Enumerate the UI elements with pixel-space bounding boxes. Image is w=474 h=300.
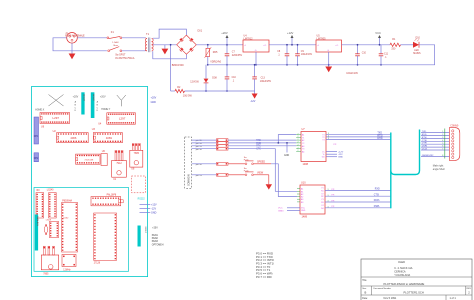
svg-text:LED: LED xyxy=(414,50,419,52)
switch Sw Push VIEW xyxy=(228,168,254,176)
svg-text:pin 13: pin 13 xyxy=(196,175,203,177)
PCB outer cyan box xyxy=(32,87,148,277)
svg-text:R4: R4 xyxy=(321,208,323,210)
LED D10 MAINS xyxy=(401,36,422,54)
svg-text:DTR\: DTR\ xyxy=(377,138,383,140)
svg-text:+20V: +20V xyxy=(151,97,157,100)
svg-text:L297: L297 xyxy=(119,117,126,121)
svg-text:A2: A2 xyxy=(302,139,304,142)
varistor R05 VDR(24V) xyxy=(205,45,222,65)
regulator U5 LM7805 xyxy=(316,35,342,52)
svg-text:+12V: +12V xyxy=(287,31,294,35)
regulator 7805 bottom package xyxy=(41,246,58,275)
IC U10 1489 line receiver xyxy=(300,182,325,219)
power label +20V xyxy=(221,31,228,45)
svg-text:Y3: Y3 xyxy=(321,199,323,201)
pin letters column 1 xyxy=(75,101,77,113)
text block +20V PEN list xyxy=(152,228,164,247)
text block P3 port functions xyxy=(256,252,274,279)
wire SPEED to U10 xyxy=(271,164,297,197)
pin letters column 2 xyxy=(97,101,99,113)
svg-text:P.P.: P.P. xyxy=(334,144,338,146)
svg-text:A0-A3X: A0-A3X xyxy=(83,94,86,102)
svg-text:CONN-DIN: CONN-DIN xyxy=(189,174,191,186)
svg-text:27128: 27128 xyxy=(94,263,101,265)
svg-text:100uF/16V: 100uF/16V xyxy=(301,54,313,56)
svg-text:1488: 1488 xyxy=(303,163,309,166)
IC vertical DIP B xyxy=(49,193,57,218)
svg-text:VIEW: VIEW xyxy=(257,171,264,174)
svg-text:PEN2: PEN2 xyxy=(152,238,159,240)
svg-text:3: 3 xyxy=(328,138,329,140)
X axis mark xyxy=(49,95,64,107)
svg-text:pin 15: pin 15 xyxy=(196,146,203,148)
svg-text:4: 4 xyxy=(442,140,443,142)
svg-text:7912: 7912 xyxy=(116,162,122,165)
svg-text:RTS\: RTS\ xyxy=(422,137,427,139)
wire CTS\ to DB9 xyxy=(421,140,449,142)
svg-text:2: 2 xyxy=(298,147,299,149)
svg-text:B1: B1 xyxy=(301,191,303,193)
svg-text:Y1: Y1 xyxy=(321,188,323,190)
svg-text:+20V: +20V xyxy=(152,228,158,230)
svg-text:7805: 7805 xyxy=(43,273,49,275)
IC LS240 vertical DIP A xyxy=(36,193,44,218)
svg-text:R3: R3 xyxy=(321,202,323,204)
svg-text:2: 2 xyxy=(298,145,299,147)
wire RTS\ to DB9 xyxy=(421,137,449,139)
svg-text:TXD: TXD xyxy=(377,133,382,135)
power label VCC xyxy=(375,31,381,45)
svg-text:2: 2 xyxy=(298,133,299,135)
svg-text:U10: U10 xyxy=(301,182,306,185)
svg-text:TXD: TXD xyxy=(422,131,427,133)
wire bridge left to minus rail xyxy=(170,45,172,91)
svg-text:CTS\: CTS\ xyxy=(374,194,380,196)
empty socket dashed box xyxy=(131,176,145,193)
svg-text:5: 5 xyxy=(442,143,443,145)
svg-text:P.P.: P.P. xyxy=(332,206,336,208)
svg-text:4066: 4066 xyxy=(70,136,76,140)
svg-text:+20V: +20V xyxy=(73,95,79,98)
wire DCD\ to DB9 xyxy=(421,149,449,151)
svg-text:RS232: RS232 xyxy=(138,199,146,201)
wire stub +12V xyxy=(140,204,151,206)
svg-text:P3.7 == RD\: P3.7 == RD\ xyxy=(256,275,272,279)
svg-text:0123 F: 0123 F xyxy=(144,227,146,234)
svg-text:VDR(24V): VDR(24V) xyxy=(210,60,221,63)
svg-text:HOME:X: HOME:X xyxy=(35,109,45,111)
Y axis mark xyxy=(117,95,126,106)
IC U3 4069 xyxy=(93,133,122,143)
svg-text:330: 330 xyxy=(391,47,396,50)
svg-text:LM7805: LM7805 xyxy=(317,37,327,40)
svg-text:GND: GND xyxy=(338,157,343,159)
diode D1 package xyxy=(44,224,47,234)
svg-text:A1: A1 xyxy=(302,134,304,137)
power terminal -12V xyxy=(250,91,257,103)
svg-text:OLED: OLED xyxy=(398,260,405,264)
green pin number column xyxy=(442,129,445,159)
regulator U1 7912 package xyxy=(115,151,117,161)
wire DTR\ to DB9 xyxy=(421,143,449,145)
IC U4b L297 stepper driver Y xyxy=(107,113,136,124)
wire T1 secondary bottom to bridge bottom xyxy=(153,51,187,59)
connector DP1 xyxy=(34,117,39,144)
svg-text:P.P.: P.P. xyxy=(332,189,336,191)
wire din row2 to U7 pin1 xyxy=(228,135,296,143)
wire fuse to T1 xyxy=(122,37,146,39)
svg-text:1489: 1489 xyxy=(302,215,308,218)
svg-text:Y4: Y4 xyxy=(321,205,323,207)
svg-text:3: 3 xyxy=(328,201,329,203)
svg-text:DSR\: DSR\ xyxy=(422,146,428,148)
svg-text:DATA-BUS: DATA-BUS xyxy=(36,216,39,226)
svg-text:2200/35V: 2200/35V xyxy=(232,54,243,57)
wire GND tap xyxy=(284,143,289,157)
cyan net tag 1 xyxy=(81,92,85,114)
svg-text:PLOTTER-RS232 to HARDWARE: PLOTTER-RS232 to HARDWARE xyxy=(384,282,425,286)
svg-text:Y2: Y2 xyxy=(321,193,323,195)
svg-text:A3: A3 xyxy=(301,198,303,201)
fuse F1 xyxy=(107,30,122,47)
svg-text:+20V: +20V xyxy=(100,95,106,98)
svg-text:GND: GND xyxy=(151,212,157,215)
wire din row4 to U10 xyxy=(228,149,297,192)
U7 right pins to bus xyxy=(326,133,391,140)
svg-text:1: 1 xyxy=(442,131,443,133)
wire U4 out to U5 in xyxy=(269,44,316,46)
IC U2 4066 xyxy=(57,133,89,143)
svg-text:Document Number: Document Number xyxy=(374,287,392,290)
wire stub -12V xyxy=(140,208,151,210)
IC small DIP D xyxy=(50,221,59,237)
PCB inner cyan box xyxy=(34,188,129,272)
resistor jumper row 4 xyxy=(192,147,228,150)
resistor jumper row 1 xyxy=(192,139,228,142)
svg-text:C10: C10 xyxy=(232,77,237,79)
svg-text:Sw SPST: Sw SPST xyxy=(115,54,126,57)
svg-text:YUGOSLAVIA: YUGOSLAVIA xyxy=(394,274,410,277)
ground symbol under U5 xyxy=(325,52,332,72)
svg-text:B80C1500: B80C1500 xyxy=(172,64,184,67)
svg-text:A0-A3Y: A0-A3Y xyxy=(92,94,95,102)
resistor jumper row 6 xyxy=(192,173,228,176)
svg-text:2: 2 xyxy=(298,150,299,152)
cyan net tag 2 xyxy=(91,92,95,118)
transformer T1 xyxy=(115,32,153,60)
svg-text:Slow: Slow xyxy=(113,45,118,47)
svg-text:CONN9: CONN9 xyxy=(450,125,459,127)
crystal 12MHz package xyxy=(62,255,76,272)
wire LED return loop xyxy=(208,45,435,65)
svg-text:SPEED: SPEED xyxy=(257,160,265,163)
IC U6 74LS138 xyxy=(76,154,100,164)
svg-text:R1: R1 xyxy=(321,190,323,192)
svg-text:L297: L297 xyxy=(53,116,60,120)
zener D08 12V/1W xyxy=(190,65,217,91)
ground below J1 xyxy=(69,43,76,59)
svg-text:PEN3: PEN3 xyxy=(152,241,159,243)
svg-text:GND\: GND\ xyxy=(278,210,284,212)
svg-text:12MHz: 12MHz xyxy=(63,270,71,272)
svg-text:2: 2 xyxy=(298,142,299,144)
svg-text:-12V: -12V xyxy=(250,100,255,103)
svg-text:8: 8 xyxy=(442,155,443,157)
svg-text:VCC: VCC xyxy=(278,208,283,210)
svg-text:+O: +O xyxy=(335,45,338,47)
svg-text:DTR\: DTR\ xyxy=(422,143,427,145)
wire T1 secondary top to bridge xyxy=(153,29,187,38)
svg-text:pin 14: pin 14 xyxy=(196,143,203,145)
svg-text:OPTOMEH: OPTOMEH xyxy=(152,244,164,246)
svg-text:P.P.: P.P. xyxy=(332,200,336,202)
net label SPEED xyxy=(253,160,271,163)
svg-text:100uF/25V: 100uF/25V xyxy=(260,81,272,83)
connector DIN-CON dashed box xyxy=(185,137,192,188)
svg-text:Y2: Y2 xyxy=(302,143,304,145)
svg-text:GND: GND xyxy=(151,101,157,104)
svg-text:Date:: Date: xyxy=(362,297,368,300)
resistor jumper row 3 xyxy=(192,144,228,147)
capacitor C9 100uF/16V xyxy=(295,45,312,65)
svg-text:74LS138: 74LS138 xyxy=(84,159,94,161)
svg-text:CTS\: CTS\ xyxy=(422,140,427,142)
svg-text:D10: D10 xyxy=(416,36,421,39)
svg-text:LS32: LS32 xyxy=(63,218,69,220)
svg-text:pin 10: pin 10 xyxy=(196,164,203,166)
switch Sw SPST xyxy=(108,47,126,57)
svg-text:DP1: DP1 xyxy=(34,136,39,138)
svg-text:RXD: RXD xyxy=(422,134,427,136)
svg-text:1.5A-F: 1.5A-F xyxy=(112,41,119,44)
capacitor C10 100uF/10V xyxy=(346,45,366,75)
wire J1 right to fuse xyxy=(77,37,107,39)
wire J1 left loop to switch xyxy=(53,38,107,51)
title block xyxy=(361,259,472,300)
wire bridge plus output rail +20V xyxy=(196,44,243,46)
svg-text:100uF/10V: 100uF/10V xyxy=(346,72,358,75)
bridge rectifier D01 B80C1500 xyxy=(172,29,203,67)
svg-text:LM7812: LM7812 xyxy=(244,37,254,40)
svg-text:1 of 1: 1 of 1 xyxy=(450,297,457,300)
wire RXD to DB9 xyxy=(421,134,449,136)
label I30 LS240 xyxy=(36,190,54,193)
svg-text:3: 3 xyxy=(328,189,329,191)
svg-text:Nov 5 1991: Nov 5 1991 xyxy=(384,297,397,300)
svg-text:GND: GND xyxy=(284,155,289,157)
svg-text:VCC: VCC xyxy=(375,31,381,35)
svg-text:+O: +O xyxy=(263,45,266,47)
svg-text:2: 2 xyxy=(298,136,299,138)
svg-text:2: 2 xyxy=(298,139,299,141)
svg-text:pin 16: pin 16 xyxy=(196,149,203,151)
svg-text:PAL16P8: PAL16P8 xyxy=(107,193,117,196)
svg-text:R2: R2 xyxy=(321,196,323,198)
wire DSR\ to DB9 xyxy=(421,146,449,148)
svg-text:GND: GND xyxy=(301,210,306,212)
svg-text:7805: 7805 xyxy=(134,152,140,155)
IC U7 1488 line driver xyxy=(301,128,326,166)
wire U4 ground pin xyxy=(255,52,257,65)
svg-text:C13: C13 xyxy=(261,78,266,80)
svg-text:REV: REV xyxy=(467,288,472,290)
U7 power stubs xyxy=(326,144,344,159)
net label VIEW xyxy=(253,171,268,174)
svg-text:HOME:Y: HOME:Y xyxy=(101,109,111,111)
resistor R2 100/.5W on minus rail xyxy=(171,86,255,98)
cyan net tag left column xyxy=(35,215,39,251)
power label +12V xyxy=(287,31,294,45)
svg-text:7: 7 xyxy=(442,149,443,151)
wire T1 center tap to bridge left xyxy=(153,44,177,46)
resistor jumper row 2 xyxy=(192,142,228,145)
regulator U8 7805 package xyxy=(132,144,134,151)
IC 8039 CPU DIP xyxy=(62,203,78,253)
bus cyan branch to connector xyxy=(391,130,420,175)
text male right angle shell xyxy=(433,165,445,171)
svg-text:15-15V/750-750mA: 15-15V/750-750mA xyxy=(115,57,135,60)
ground under VIEW switch xyxy=(266,175,272,190)
svg-text:Y3: Y3 xyxy=(302,149,304,151)
IC 27128 EPROM DIP xyxy=(94,213,117,265)
U7 left pin numbers xyxy=(296,133,301,152)
svg-text:B3: B3 xyxy=(301,202,303,204)
svg-text:A4: A4 xyxy=(302,150,304,153)
cyan net tag right xyxy=(138,226,141,247)
bus cyan vertical xyxy=(390,133,392,209)
svg-text:PLUG AC FEMALE: PLUG AC FEMALE xyxy=(65,35,85,38)
svg-text:Push: Push xyxy=(244,160,250,162)
svg-text:6: 6 xyxy=(442,146,443,148)
resistor jumper row 5 xyxy=(192,162,228,165)
svg-text:Y1: Y1 xyxy=(302,137,304,139)
ground arrow center tap xyxy=(162,45,169,55)
svg-text:B2: B2 xyxy=(301,197,303,199)
U10 left pin stubs xyxy=(297,189,300,202)
connector CONN9 DB9 xyxy=(449,125,459,160)
capacitor C7 2200/35V xyxy=(225,45,243,65)
svg-text:D08: D08 xyxy=(212,76,217,79)
svg-text:100/.5W: 100/.5W xyxy=(183,95,193,98)
switch Sw Push SPEED xyxy=(228,157,254,165)
capacitor C11 .1 xyxy=(379,45,389,65)
IC PAL16P8 DIP xyxy=(91,197,123,206)
svg-text:angle Shell: angle Shell xyxy=(433,168,445,171)
svg-text:A1: A1 xyxy=(301,188,303,191)
resistor R1 330 xyxy=(390,38,401,50)
svg-text:+12V: +12V xyxy=(151,204,157,207)
svg-text:-12V: -12V xyxy=(151,208,156,211)
svg-text:G: G xyxy=(255,50,257,52)
svg-text:PLOTTER1.SCH: PLOTTER1.SCH xyxy=(404,290,424,294)
wire TXD to DB9 xyxy=(421,131,449,133)
svg-text:DCD\: DCD\ xyxy=(374,200,380,202)
svg-text:C10: C10 xyxy=(362,53,367,55)
svg-text:G: G xyxy=(327,50,329,52)
svg-text:DCD\: DCD\ xyxy=(422,149,428,151)
capacitor C13 100uF/25V xyxy=(252,65,271,91)
svg-text:MAINS: MAINS xyxy=(413,52,421,55)
U10 right wires to bus xyxy=(325,189,391,209)
connector DP2 xyxy=(34,153,39,162)
capacitor C10b .1 lower xyxy=(225,65,237,91)
svg-text:+20V: +20V xyxy=(221,31,228,35)
svg-text:R05: R05 xyxy=(213,51,218,54)
svg-text:PEN1: PEN1 xyxy=(152,235,159,237)
small IC beside U6 xyxy=(101,154,107,166)
svg-text:DP2: DP2 xyxy=(34,158,39,160)
wire switch to T1 xyxy=(122,50,146,52)
wire din row1 to U7 xyxy=(228,139,296,141)
svg-text:D01: D01 xyxy=(198,29,203,32)
wire U5 out rail VCC xyxy=(342,44,391,46)
connector J1 PLUG AC FEMALE xyxy=(65,32,85,43)
svg-text:GNDRS232: GNDRS232 xyxy=(422,155,434,157)
svg-text:3: 3 xyxy=(328,206,329,208)
svg-text:4069: 4069 xyxy=(106,136,112,140)
svg-text:LS240: LS240 xyxy=(47,190,54,192)
svg-text:pin 11: pin 11 xyxy=(196,140,203,142)
wire din row3 to U7 xyxy=(228,145,296,147)
wire GNDRS232 to DB9 xyxy=(421,155,449,157)
svg-text:12V/1W: 12V/1W xyxy=(190,81,199,84)
svg-text:DSR\: DSR\ xyxy=(374,206,380,208)
svg-text:3: 3 xyxy=(442,137,443,139)
svg-text:B: B xyxy=(365,291,367,295)
regulator U4 LM7812 xyxy=(243,35,269,52)
svg-text:Title: Title xyxy=(362,279,367,282)
svg-text:T3: T3 xyxy=(322,139,324,141)
svg-text:A3: A3 xyxy=(302,145,304,148)
svg-text:P8039HA: P8039HA xyxy=(62,199,72,202)
U10 VCC GND labels xyxy=(278,208,300,213)
svg-text:2: 2 xyxy=(442,134,443,136)
capacitor C8 .1 xyxy=(277,45,289,65)
svg-text:Push: Push xyxy=(244,171,250,173)
svg-text:3: 3 xyxy=(328,195,329,197)
svg-text:P.P.: P.P. xyxy=(332,195,336,197)
wire stub GND xyxy=(140,212,151,214)
IC U9 L297 stepper driver X xyxy=(40,113,70,124)
svg-text:RXD: RXD xyxy=(375,189,380,191)
